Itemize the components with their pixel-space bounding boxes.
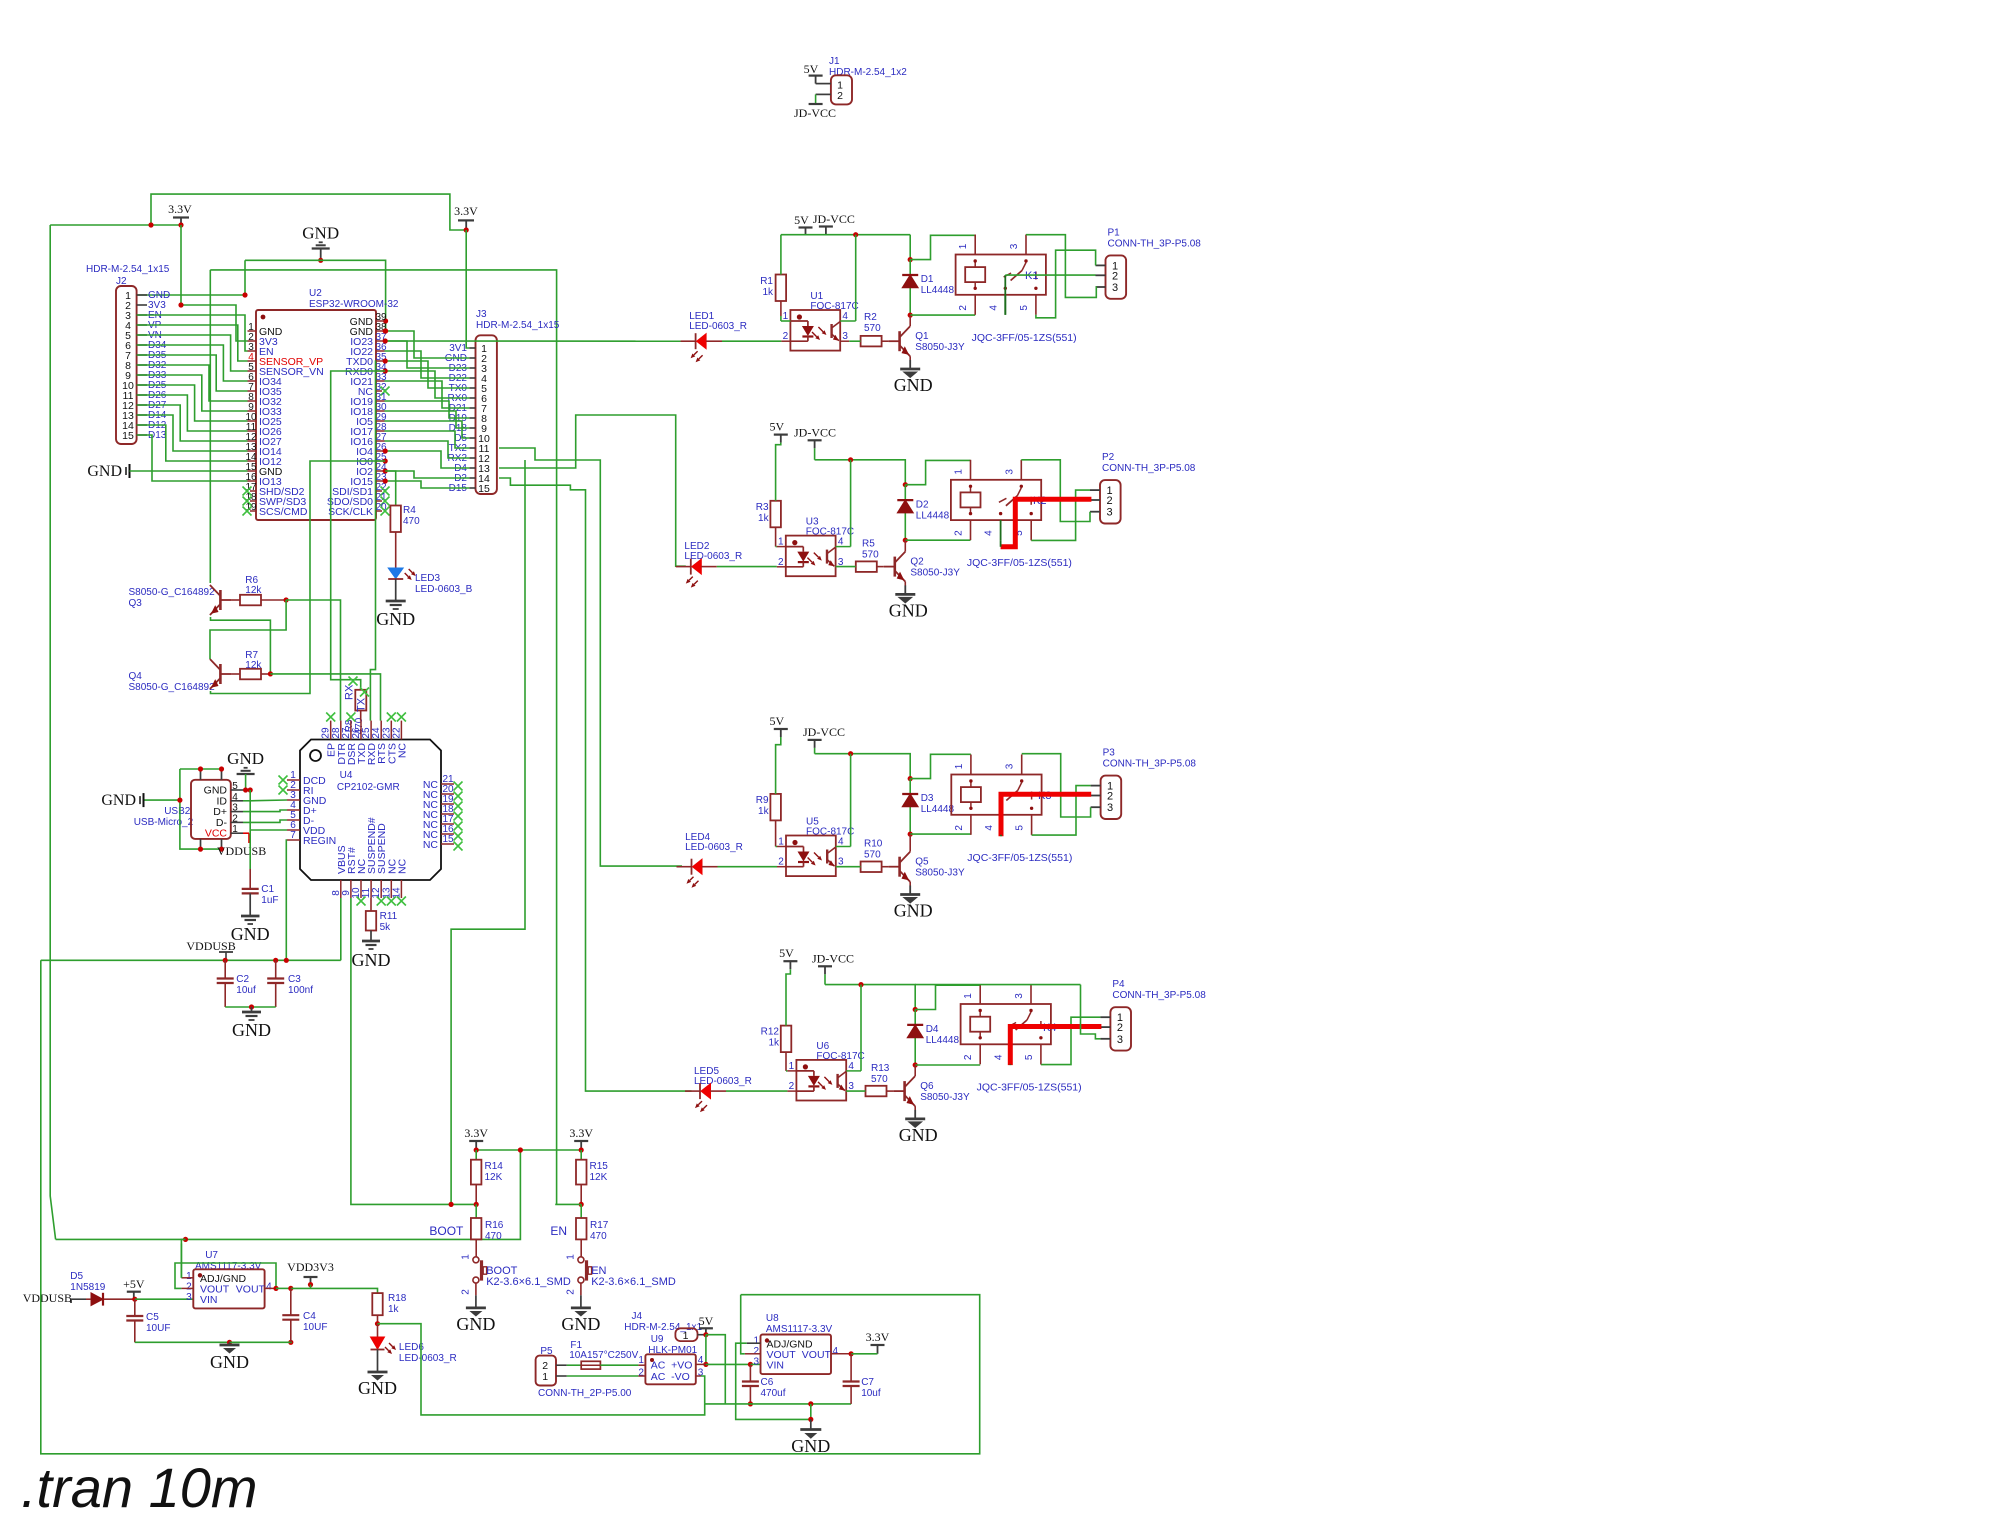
svg-text:1N5819: 1N5819 <box>70 1282 105 1293</box>
svg-text:1k: 1k <box>758 806 770 817</box>
svg-text:5: 5 <box>1019 305 1030 311</box>
svg-text:570: 570 <box>864 850 881 861</box>
wire U7 VOUT pin2 loop <box>175 1263 276 1288</box>
svg-text:1: 1 <box>954 763 965 769</box>
ground GND flag above USB2 GND pin <box>237 773 255 775</box>
svg-text:GND: GND <box>894 375 933 395</box>
svg-text:Q6: Q6 <box>920 1081 934 1092</box>
junction IO15 <box>383 478 388 483</box>
svg-text:Q1: Q1 <box>915 331 929 342</box>
wire relay pin 5 to P1 pin 1 <box>1036 250 1096 318</box>
diode D4 LL4448 <box>914 1010 916 1066</box>
svg-text:4: 4 <box>266 1282 272 1293</box>
pin U4.16 NC <box>441 833 454 835</box>
svg-text:Q4: Q4 <box>129 671 143 682</box>
svg-text:R4: R4 <box>403 505 416 516</box>
svg-text:470: 470 <box>485 1231 502 1242</box>
wire IO23 to LED1 (long) <box>385 340 681 342</box>
svg-text:12K: 12K <box>485 1172 503 1183</box>
svg-text:570: 570 <box>862 549 879 560</box>
wire Q1 emitter to GND <box>909 356 911 360</box>
net label VDDUSB (USB VCC) <box>243 832 249 834</box>
pin P5.2 <box>556 1364 567 1366</box>
svg-text:4: 4 <box>833 1346 839 1357</box>
wire rail jog to relay pin 1 <box>903 482 908 487</box>
wire USB GND pin to flag and U4 GND <box>245 774 247 790</box>
svg-text:1: 1 <box>186 1271 192 1282</box>
junction JD-VCC rail <box>853 232 858 237</box>
svg-text:22: 22 <box>391 727 402 739</box>
wire Q2 emitter to GND <box>904 582 906 586</box>
svg-text:GND: GND <box>894 901 933 921</box>
wire Q6 collector <box>914 1065 916 1076</box>
svg-text:CONN-TH_2P-P5.00: CONN-TH_2P-P5.00 <box>538 1388 632 1399</box>
svg-text:P1: P1 <box>1108 227 1121 238</box>
svg-text:5V: 5V <box>769 714 784 728</box>
svg-text:2: 2 <box>232 813 238 824</box>
resistor R16 470 <box>475 1204 477 1218</box>
wire GND to USB shell <box>145 799 180 801</box>
svg-text:4: 4 <box>984 530 995 536</box>
node 3.3V left rail corner <box>151 194 466 230</box>
wire R1 to U1 pin 1 <box>780 301 782 316</box>
pin U4.1 DCD <box>287 779 300 781</box>
wire 3.3V down to J3 pin1 <box>466 230 469 348</box>
svg-text:5: 5 <box>232 781 238 792</box>
ground GND (Q5) <box>909 886 911 895</box>
svg-text:JD-VCC: JD-VCC <box>813 212 855 226</box>
svg-text:3.3V: 3.3V <box>464 1126 488 1140</box>
svg-text:JQC-3FF/05-1ZS(551): JQC-3FF/05-1ZS(551) <box>967 852 1072 864</box>
diode D2 LL4448 <box>904 485 906 541</box>
svg-text:LED-0603_R: LED-0603_R <box>689 321 747 332</box>
transistor Q2 S8050-J3Y <box>877 566 884 568</box>
pin U4.18 NC <box>441 813 454 815</box>
svg-text:FOC-817C: FOC-817C <box>810 301 858 312</box>
svg-text:470: 470 <box>403 516 420 527</box>
wire JD-VCC rail <box>814 748 816 754</box>
svg-text:CONN-TH_3P-P5.08: CONN-TH_3P-P5.08 <box>1102 463 1196 474</box>
svg-text:5: 5 <box>1015 825 1026 831</box>
svg-text:S8050-J3Y: S8050-J3Y <box>910 568 960 579</box>
svg-text:3: 3 <box>1106 507 1112 519</box>
wire bundle J2 to U2 <box>181 305 248 341</box>
svg-text:JD-VCC: JD-VCC <box>794 106 836 120</box>
svg-text:CONN-TH_3P-P5.08: CONN-TH_3P-P5.08 <box>1108 238 1202 249</box>
svg-text:15: 15 <box>442 834 454 845</box>
svg-text:2: 2 <box>754 1346 760 1357</box>
relay K3 JQC-3FF/05-1ZS(551) <box>951 775 1041 815</box>
svg-text:D3: D3 <box>921 793 934 804</box>
ground GND below R11 <box>370 931 372 942</box>
junction IO2 <box>383 468 388 473</box>
wire EN button to GND <box>580 1283 582 1295</box>
wire 3.3V net top-left <box>50 224 181 226</box>
svg-text:R2: R2 <box>864 312 877 323</box>
svg-text:K2-3.6×6.1_SMD: K2-3.6×6.1_SMD <box>486 1276 571 1288</box>
svg-text:2: 2 <box>1107 791 1113 803</box>
svg-text:15: 15 <box>122 430 134 442</box>
capacitor C7 10uf <box>850 1354 852 1382</box>
svg-text:NC: NC <box>396 743 408 759</box>
connector P4 CONN-TH_3P-P5.08 <box>1110 1007 1131 1050</box>
wire TX2 row to LED4 <box>499 448 682 866</box>
svg-text:P4: P4 <box>1112 979 1125 990</box>
wire node B to RTS <box>270 674 380 721</box>
wire U5 pin 3 to R10 <box>836 866 861 868</box>
svg-text:P3: P3 <box>1103 748 1116 759</box>
wire LED6 node to bottom-right GND rail <box>378 1324 705 1415</box>
svg-text:LED3: LED3 <box>415 573 440 584</box>
svg-text:R16: R16 <box>485 1220 504 1231</box>
optocoupler U3 FOC-817C <box>786 536 836 577</box>
svg-text:2: 2 <box>954 825 965 831</box>
wire K1 common (green) <box>1004 275 1006 315</box>
pin U4.3 GND <box>287 799 300 801</box>
optocoupler U1 FOC-817C <box>790 310 840 351</box>
capacitor C6 470uf <box>749 1364 751 1381</box>
wire GND rail above U2 <box>245 260 386 331</box>
svg-text:GND: GND <box>889 600 928 620</box>
svg-text:GND: GND <box>232 1020 271 1040</box>
svg-text:S8050-J3Y: S8050-J3Y <box>915 342 965 353</box>
wire BOOT net (IO0) long run <box>451 460 525 1204</box>
svg-text:U8: U8 <box>766 1313 779 1324</box>
svg-text:R10: R10 <box>864 839 883 850</box>
svg-text:5V: 5V <box>804 62 819 76</box>
resistor R17 470 <box>580 1204 582 1218</box>
svg-text:JQC-3FF/05-1ZS(551): JQC-3FF/05-1ZS(551) <box>977 1081 1082 1093</box>
wire 5V to R12 <box>786 969 790 1025</box>
svg-text:1: 1 <box>683 1330 689 1342</box>
ground GND (bottom right) <box>810 1419 812 1429</box>
wire R12 to U6 pin 1 <box>785 1052 787 1071</box>
svg-text:R5: R5 <box>862 538 875 549</box>
wire U8 VOUT pin2 to 3.3V loop corner <box>741 1295 745 1354</box>
svg-text:LED-0603_R: LED-0603_R <box>685 842 743 853</box>
pin U4.26 TXD <box>360 721 362 740</box>
svg-text:CONN-TH_3P-P5.08: CONN-TH_3P-P5.08 <box>1112 990 1206 1001</box>
GND rail (bottom right) <box>748 1401 753 1406</box>
svg-text:CONN-TH_3P-P5.08: CONN-TH_3P-P5.08 <box>1103 759 1197 770</box>
pin USB2.2 D- <box>231 821 243 823</box>
wire Q2 collector <box>904 540 906 551</box>
wire GND to U2 pin15 <box>130 470 248 472</box>
wire R15 bottom to EN node <box>580 1185 582 1205</box>
wire U7 ADJ to 3.3V line <box>180 1243 182 1277</box>
wire LED2 to U3 pin 2 <box>701 566 717 568</box>
svg-text:2: 2 <box>1106 495 1112 507</box>
svg-text:SCS/CMD: SCS/CMD <box>259 506 308 518</box>
svg-text:U7: U7 <box>205 1250 218 1261</box>
svg-text:LL4448: LL4448 <box>926 1035 960 1046</box>
wire 3.3V rail between R14/R15 <box>476 1149 581 1151</box>
svg-text:4: 4 <box>988 305 999 311</box>
pin U4.13 NC <box>390 880 392 898</box>
svg-text:15: 15 <box>478 483 490 495</box>
junction IO0 <box>383 458 388 463</box>
svg-text:.tran 10m: .tran 10m <box>21 1456 258 1519</box>
svg-text:3: 3 <box>232 803 238 814</box>
svg-text:3: 3 <box>1117 1034 1123 1046</box>
svg-text:VDDUSB: VDDUSB <box>217 844 266 858</box>
capacitor C2 10uf <box>224 960 226 978</box>
pin U4.23 CTS <box>390 721 392 740</box>
relay K4 JQC-3FF/05-1ZS(551) <box>961 1004 1051 1044</box>
pin U7.3 VIN <box>192 1298 194 1300</box>
svg-text:LL4448: LL4448 <box>916 510 950 521</box>
svg-text:J3: J3 <box>476 309 487 320</box>
ground GND (Q2) <box>904 585 906 594</box>
wire U4 VDD from rail <box>250 829 287 831</box>
pin U4.17 NC <box>441 823 454 825</box>
wire 3.3V branch to U7 ADJ <box>181 1239 185 1277</box>
resistor R14 12K <box>475 1150 477 1160</box>
svg-text:R1: R1 <box>760 276 773 287</box>
connector P3 CONN-TH_3P-P5.08 <box>1101 776 1122 819</box>
wire 5V node down to +VO rail <box>705 1335 707 1365</box>
svg-text:JQC-3FF/05-1ZS(551): JQC-3FF/05-1ZS(551) <box>972 332 1077 344</box>
svg-text:5V: 5V <box>779 946 794 960</box>
wire LED4 to U5 pin 2 <box>702 866 718 868</box>
highlighted net K4 (thick red) <box>1010 1027 1101 1066</box>
wire USB shell ground loop <box>180 768 222 770</box>
pin U9.1 <box>638 1364 645 1366</box>
wire relay pin 3 to P3 pin 3 <box>1022 754 1091 817</box>
wire U7 VOUT to VDD3V3 / R18 <box>273 1286 278 1291</box>
svg-text:1: 1 <box>754 1336 760 1347</box>
diode D3 LL4448 <box>909 779 911 835</box>
svg-text:1: 1 <box>566 1254 577 1260</box>
svg-text:AC: AC <box>651 1360 666 1372</box>
svg-text:BOOT: BOOT <box>429 1224 464 1238</box>
svg-text:570: 570 <box>864 323 881 334</box>
wire JD-VCC rail extension to relay pin 3 (channel 4) <box>915 984 1080 986</box>
resistor R18 1k <box>372 1293 382 1315</box>
svg-text:REGIN: REGIN <box>303 835 336 847</box>
wire LED1 to U1 pin 2 <box>706 340 722 342</box>
highlighted net K2 (thick red) <box>1001 499 1092 547</box>
svg-text:1: 1 <box>958 243 969 249</box>
power flag JD-VCC (J1 pin2) <box>816 93 831 95</box>
svg-text:K1: K1 <box>1025 270 1038 282</box>
svg-text:R11: R11 <box>380 911 398 922</box>
wire USB D+ to U4 D+ <box>243 810 287 812</box>
pin U4.19 NC <box>441 803 454 805</box>
node B junction (R7 right) <box>268 671 273 676</box>
wire U9 -VO down to GND rail <box>696 1375 701 1377</box>
svg-text:R17: R17 <box>590 1220 609 1231</box>
svg-text:LL4448: LL4448 <box>921 285 955 296</box>
svg-text:FOC-817C: FOC-817C <box>816 1051 864 1062</box>
transistor Q6 S8050-J3Y <box>887 1090 894 1092</box>
svg-text:5V: 5V <box>794 213 809 227</box>
wire U8 VOUT to 3.3V <box>851 1353 877 1355</box>
svg-text:TX: TX <box>356 697 368 712</box>
wire Q3 emitter to node B <box>211 617 271 674</box>
svg-text:2: 2 <box>186 1282 192 1293</box>
wire USB D- to U4 D- <box>243 820 287 822</box>
svg-text:JD-VCC: JD-VCC <box>803 725 845 739</box>
svg-text:JD-VCC: JD-VCC <box>812 951 854 965</box>
wire EN net top run <box>210 270 556 1205</box>
svg-text:HDR-M-2.54_1x15: HDR-M-2.54_1x15 <box>86 264 170 275</box>
pin U4.12 SUSPEND <box>380 880 382 898</box>
wire relay pin 3 to P2 pin 3 <box>1021 460 1090 522</box>
svg-text:U2: U2 <box>309 288 322 299</box>
svg-text:2: 2 <box>1112 270 1118 282</box>
ground GND (BOOT) <box>466 1307 486 1310</box>
svg-text:5V: 5V <box>699 1314 714 1328</box>
svg-text:NC: NC <box>396 858 408 874</box>
svg-text:LED-0603_R: LED-0603_R <box>399 1353 457 1364</box>
pin U8.2 VOUT <box>745 1353 761 1355</box>
pin U4.22 NC <box>400 721 402 740</box>
svg-text:C7: C7 <box>861 1377 874 1388</box>
wire D1 to relay pin 2 <box>910 314 975 316</box>
svg-text:GND: GND <box>456 1314 495 1334</box>
svg-text:100nf: 100nf <box>288 985 313 996</box>
svg-text:7: 7 <box>290 830 296 841</box>
svg-text:1k: 1k <box>758 513 770 524</box>
svg-text:3: 3 <box>1014 993 1025 999</box>
svg-text:D5: D5 <box>70 1271 83 1282</box>
svg-text:LED-0603_R: LED-0603_R <box>694 1076 752 1087</box>
pin U4.21 NC <box>441 783 454 785</box>
svg-text:LED-0603_R: LED-0603_R <box>684 551 742 562</box>
pin U7.1 ADJ/GND <box>181 1277 193 1279</box>
svg-text:12K: 12K <box>590 1172 608 1183</box>
wire relay pin 5 to P2 pin 1 <box>1031 490 1090 540</box>
svg-text:1k: 1k <box>388 1304 400 1315</box>
wire Q3 collector up (EN) <box>209 270 211 583</box>
ground GND (Q6) <box>914 1110 916 1119</box>
wire Q5 emitter to GND <box>909 882 911 886</box>
svg-text:1uF: 1uF <box>261 895 278 906</box>
wire U3 pin 4 to JD-VCC rail <box>850 460 852 547</box>
pin U4.25 RXD <box>370 721 372 740</box>
svg-text:2: 2 <box>1117 1022 1123 1034</box>
svg-text:C6: C6 <box>761 1377 774 1388</box>
svg-text:GND: GND <box>87 463 122 480</box>
wire Q5 collector <box>909 834 911 852</box>
svg-text:GND: GND <box>358 1378 397 1398</box>
svg-text:GND: GND <box>561 1314 600 1334</box>
wire D2 row to LED5 <box>499 478 692 1091</box>
button EN K2-3.6x6.1_SMD <box>580 1239 582 1256</box>
wire rail jog to relay pin 1 <box>908 776 913 781</box>
svg-text:R9: R9 <box>756 795 769 806</box>
svg-text:1k: 1k <box>768 1038 780 1049</box>
wire 5V to R9 <box>776 737 781 794</box>
junction RXD0 <box>383 368 388 373</box>
junction IO4 <box>383 448 388 453</box>
diode D1 LL4448 <box>909 260 911 316</box>
wire Q6 emitter to GND <box>914 1106 916 1110</box>
wire bundle U2 to J3 <box>385 331 470 358</box>
wire R4 to LED3 <box>395 532 397 568</box>
wire relay pin 5 to P4 pin 1 <box>1041 1017 1101 1064</box>
svg-text:2: 2 <box>566 1289 577 1295</box>
wire R9 to U5 pin 1 <box>775 820 777 846</box>
pin U4.20 NC <box>441 793 454 795</box>
svg-text:CP2102-GMR: CP2102-GMR <box>337 782 400 793</box>
svg-text:GND: GND <box>376 609 415 629</box>
ground GND below C1 <box>249 893 251 916</box>
wire RXD0 through-box to R8 <box>331 371 386 690</box>
svg-text:2: 2 <box>837 90 843 102</box>
junction TXD0 <box>383 358 388 363</box>
resistor R4 <box>390 506 401 533</box>
wire REGIN down to VDDUSB rail <box>285 840 288 960</box>
wire J2 pin1 GND <box>136 294 245 296</box>
wire USB ID row <box>243 800 250 802</box>
svg-text:1: 1 <box>542 1371 548 1383</box>
pin U7.2 VOUT <box>181 1287 193 1289</box>
svg-text:3.3V: 3.3V <box>866 1330 890 1344</box>
svg-text:USB2: USB2 <box>164 806 191 817</box>
wire EN node horizontal <box>555 1203 581 1205</box>
svg-text:NC: NC <box>423 839 439 851</box>
wire JD-VCC rail <box>824 974 826 984</box>
wire P5.1 to U9 AC2 <box>567 1375 639 1377</box>
svg-text:3: 3 <box>1004 469 1015 475</box>
wire D4 row to LED2 <box>499 415 686 566</box>
svg-text:S8050-G_C164892: S8050-G_C164892 <box>129 682 216 693</box>
wire IO0 through-box to Q4 emitter <box>211 461 386 694</box>
svg-text:GND: GND <box>231 924 270 944</box>
svg-text:4: 4 <box>232 792 238 803</box>
svg-text:1: 1 <box>963 993 974 999</box>
svg-text:5V: 5V <box>769 420 784 434</box>
svg-text:2: 2 <box>958 305 969 311</box>
ground GND above U2 <box>312 247 330 249</box>
svg-text:LL4448: LL4448 <box>921 804 955 815</box>
pin U7.4 VOUT <box>265 1287 276 1289</box>
svg-text:AMS1117-3.3V: AMS1117-3.3V <box>766 1324 833 1335</box>
pin U4.5 D- <box>287 819 300 821</box>
capacitor C5 10UF <box>134 1299 136 1316</box>
pin U4.14 NC <box>400 880 402 898</box>
pin U8.1 ADJ/GND <box>747 1342 761 1344</box>
svg-text:10UF: 10UF <box>146 1323 170 1334</box>
wire Q1 collector <box>909 315 911 326</box>
pin U4.6 VDD <box>287 829 300 831</box>
pin USB2.3 D+ <box>231 811 243 813</box>
wire 3.3V riser to J2 pin2 <box>180 225 182 305</box>
svg-text:RX: RX <box>344 684 356 700</box>
svg-text:3: 3 <box>186 1292 192 1303</box>
wire VBUS down to VDDUSB rail <box>340 898 342 960</box>
svg-text:USB-Micro_2: USB-Micro_2 <box>134 817 194 828</box>
wire U6 pin 4 to JD-VCC rail <box>860 985 862 1071</box>
svg-text:JQC-3FF/05-1ZS(551): JQC-3FF/05-1ZS(551) <box>967 557 1072 569</box>
svg-text:570: 570 <box>871 1074 888 1085</box>
svg-text:C3: C3 <box>288 974 301 985</box>
svg-text:JD-VCC: JD-VCC <box>794 425 836 439</box>
highlighted net K3 (thick red) <box>1001 794 1091 836</box>
svg-text:VDDUSB: VDDUSB <box>186 939 235 953</box>
svg-text:S8050-J3Y: S8050-J3Y <box>915 868 965 879</box>
svg-text:2: 2 <box>461 1289 472 1295</box>
pin USB2.1 VCC <box>231 832 243 834</box>
wire +5V node to U7 VIN <box>135 1298 194 1300</box>
wire Q4 collector up to node A riser <box>210 600 286 659</box>
svg-text:C1: C1 <box>261 884 274 895</box>
wire U9 +VO to U8 VIN <box>696 1363 706 1365</box>
svg-text:VIN: VIN <box>200 1294 218 1306</box>
ground GND (EN) <box>571 1307 591 1310</box>
